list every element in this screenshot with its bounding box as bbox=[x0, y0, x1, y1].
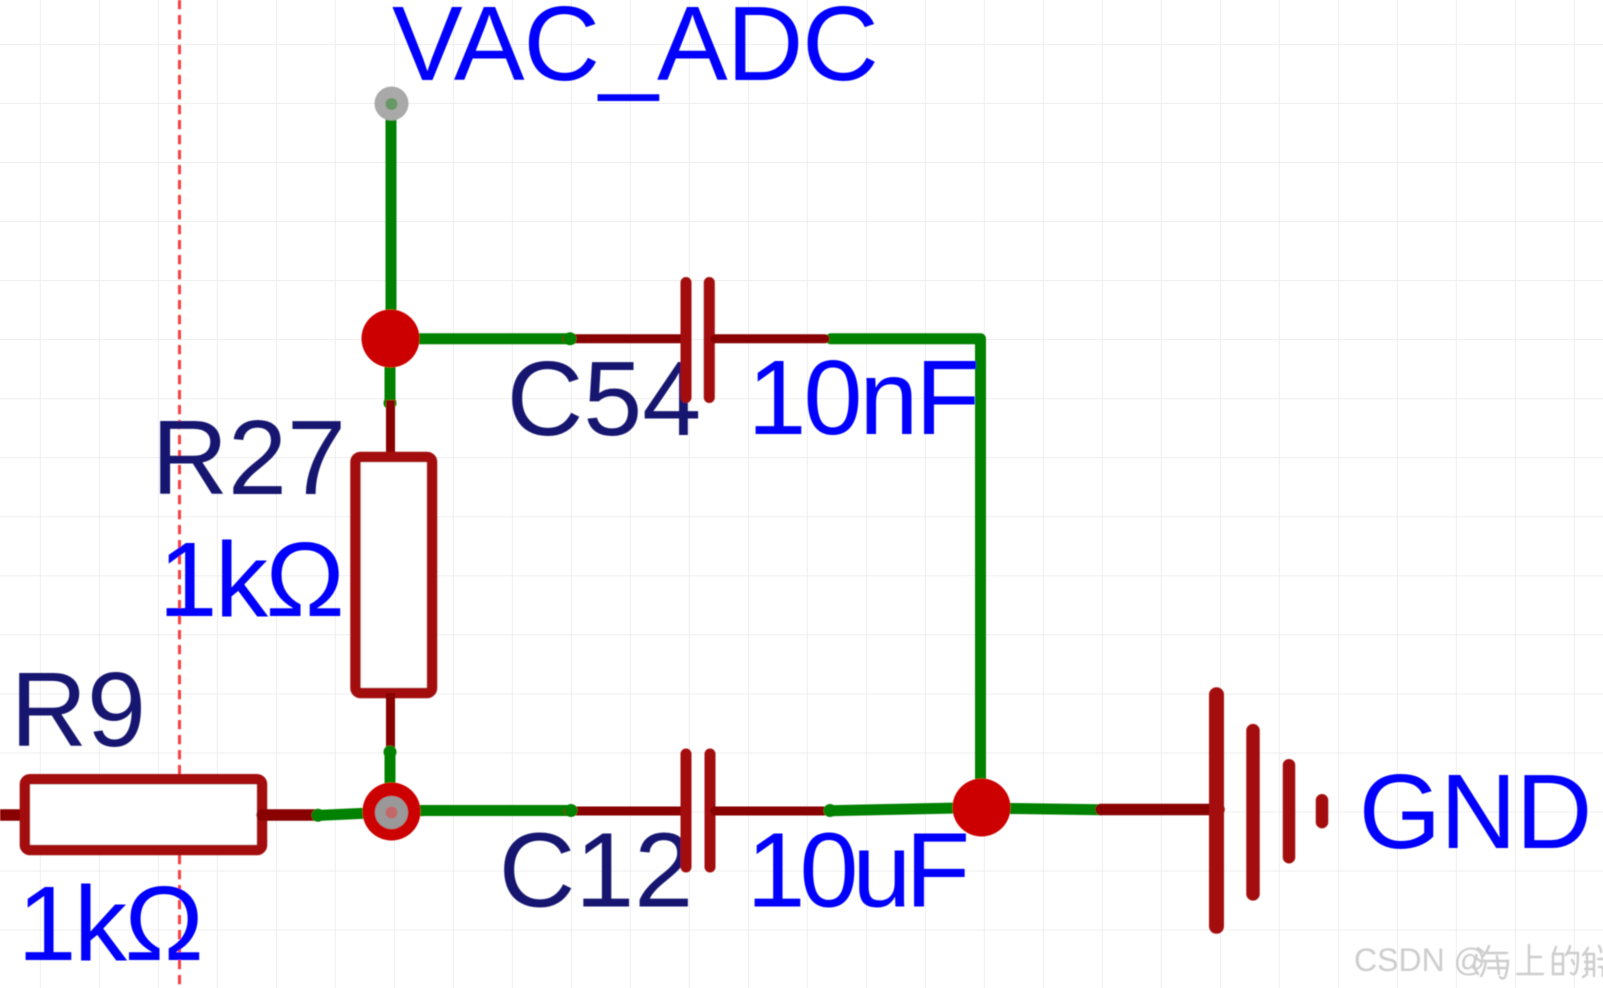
hanzi shang bbox=[1517, 945, 1543, 974]
hanzi de bbox=[1553, 946, 1578, 974]
svg-text:R27: R27 bbox=[152, 399, 346, 517]
pin dot C54 left bbox=[564, 332, 577, 345]
pin dot R9 right bbox=[312, 809, 325, 822]
label R9 bbox=[11, 651, 147, 769]
capacitor C12 plate right bbox=[705, 754, 716, 867]
svg-text:1kΩ: 1kΩ bbox=[159, 521, 343, 639]
watermark CSDN @海上的船 bbox=[1354, 942, 1603, 979]
wire bottom horizontal right of C12 to GND lead bbox=[829, 808, 981, 811]
resistor R27 lead top bbox=[386, 400, 395, 457]
net label VAC_ADC bbox=[392, 0, 878, 103]
capacitor C54 plate right bbox=[704, 283, 715, 398]
ground GND lead bbox=[1101, 804, 1219, 816]
svg-text:CSDN @: CSDN @ bbox=[1354, 942, 1486, 978]
net label GND bbox=[1359, 753, 1592, 871]
svg-text:VAC_ADC: VAC_ADC bbox=[392, 0, 878, 103]
wire top horizontal right and down to junction bbox=[831, 339, 981, 809]
resistor R9 lead left bbox=[0, 809, 25, 821]
hanzi chuan bbox=[1583, 946, 1603, 977]
value 10nF bbox=[748, 339, 978, 457]
resistor R27 body bbox=[356, 457, 433, 693]
svg-text:GND: GND bbox=[1359, 753, 1592, 871]
wire stub above bottom junction bbox=[385, 750, 396, 811]
capacitor C54 lead right bbox=[715, 334, 825, 343]
ground GND bar1 bbox=[1209, 695, 1224, 927]
wire VAC_ADC vertical bbox=[386, 106, 397, 339]
capacitor C12 plate left bbox=[681, 754, 692, 867]
svg-text:R9: R9 bbox=[11, 651, 147, 769]
label R27 bbox=[152, 399, 346, 517]
wire bottom junction to C12 bbox=[391, 805, 572, 816]
svg-text:C54: C54 bbox=[507, 340, 701, 458]
capacitor C12 lead left bbox=[568, 807, 681, 816]
wire junction to GND bbox=[981, 808, 1101, 810]
value R9 1k ohm bbox=[18, 865, 202, 983]
junction top bbox=[362, 310, 420, 368]
wire bottom horizontal left of C12 bbox=[316, 811, 425, 816]
capacitor C54 lead left bbox=[567, 334, 681, 343]
pin dot C12 right bbox=[824, 804, 837, 817]
svg-text:1kΩ: 1kΩ bbox=[18, 865, 202, 983]
hanzi hai bbox=[1472, 948, 1483, 974]
capacitor C12 lead right bbox=[715, 807, 824, 816]
pin dot R27 bottom bbox=[384, 746, 397, 759]
label C54 bbox=[507, 340, 701, 458]
resistor R9 body bbox=[25, 779, 262, 850]
svg-text:10nF: 10nF bbox=[748, 339, 978, 457]
pin endpoint VAC_ADC port bbox=[375, 87, 409, 121]
svg-text:10uF: 10uF bbox=[747, 812, 967, 930]
value R27 1k ohm bbox=[159, 521, 343, 639]
pin dot C12 left bbox=[565, 804, 578, 817]
sheet boundary dashed line bbox=[178, 0, 181, 988]
value 10uF bbox=[747, 812, 967, 930]
resistor R9 lead right bbox=[262, 809, 318, 821]
svg-text:C12: C12 bbox=[499, 812, 693, 930]
ground GND bar3 bbox=[1283, 765, 1296, 857]
ground GND bar2 bbox=[1246, 731, 1260, 894]
capacitor C54 plate left bbox=[681, 283, 692, 398]
junction bottom left bbox=[363, 783, 421, 841]
resistor R27 lead bottom bbox=[386, 693, 395, 753]
junction bottom right bbox=[953, 779, 1011, 837]
label C12 bbox=[499, 812, 693, 930]
wire stub below top junction bbox=[384, 339, 397, 410]
ground GND bar4 bbox=[1316, 800, 1329, 822]
wire top horizontal left bbox=[390, 333, 572, 344]
